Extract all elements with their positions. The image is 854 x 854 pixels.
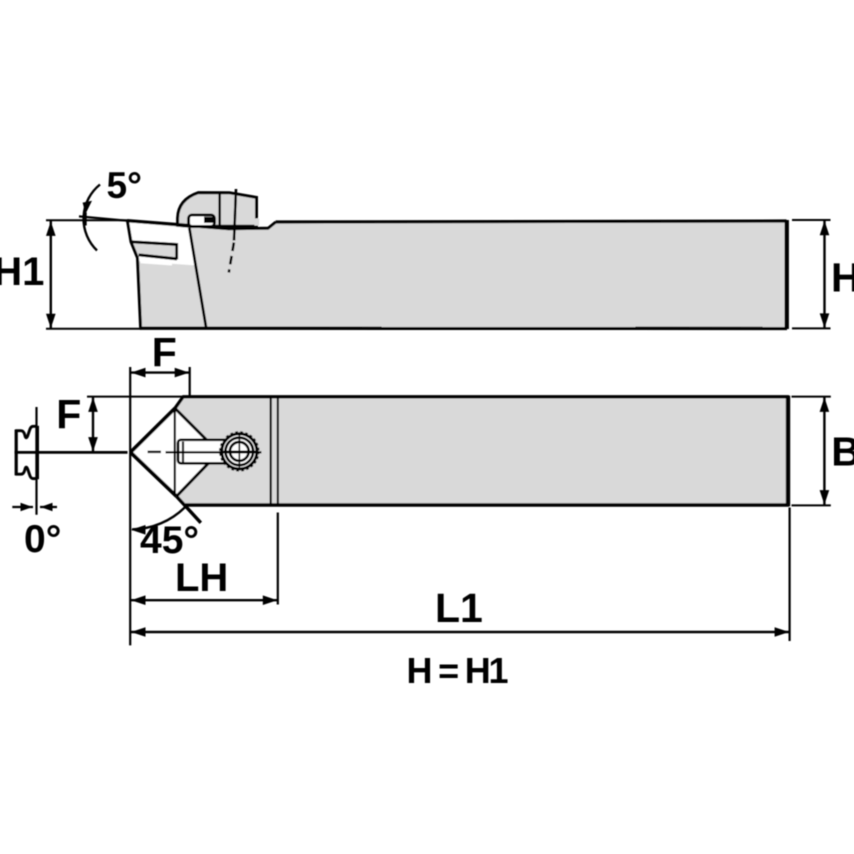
H1 arrow up <box>46 221 56 236</box>
shank bottom edge <box>140 327 787 331</box>
svg-text:LH: LH <box>175 556 228 600</box>
L1 right arrow <box>775 627 790 637</box>
5 deg sloped reference line <box>79 216 128 220</box>
F vertical: top ext line <box>87 396 182 398</box>
L1 right ext line <box>788 508 790 642</box>
insert bottom edge <box>131 242 178 245</box>
H dimension line <box>823 220 825 328</box>
svg-text:F: F <box>56 391 81 437</box>
B top ext line <box>792 396 831 398</box>
svg-text:H1: H1 <box>0 250 44 294</box>
screw head scalloped rim <box>220 432 259 471</box>
F vertical arrow down <box>88 437 98 452</box>
0 deg dim line left <box>12 506 33 508</box>
45 deg edge extension <box>177 496 201 523</box>
LH right ext line <box>277 513 279 605</box>
45 deg arc arrowhead <box>131 525 146 535</box>
workpiece left bar <box>15 430 18 476</box>
B arrow up <box>820 397 830 412</box>
side view shank body (gray) <box>128 221 787 328</box>
H bottom extension line <box>792 327 831 329</box>
diamond lower-right edge <box>177 452 220 496</box>
F vertical arrow up <box>88 397 98 412</box>
white gap line under shim <box>141 262 173 264</box>
clamp right edge lower gap (hidden line) <box>254 218 259 225</box>
0 deg arrow left-pointing <box>41 503 53 511</box>
shim bottom edge <box>139 255 177 259</box>
head front slant line <box>189 228 206 329</box>
H1 bottom extension line <box>46 328 141 330</box>
5 deg arc <box>84 185 100 251</box>
clamp nose black tab <box>204 217 214 223</box>
pocket right cap <box>175 243 178 259</box>
F horizontal: left ext line (long, shared with LH/L1) <box>129 367 131 645</box>
0 deg arrow right-pointing <box>21 503 33 511</box>
seam line right of clamp <box>230 227 269 231</box>
workpiece symbol <box>16 426 38 437</box>
screw cross vertical <box>238 434 240 470</box>
svg-text:F: F <box>152 330 177 376</box>
F horizontal left arrow <box>131 368 146 378</box>
L1 left arrow <box>131 627 146 637</box>
step up to shank top <box>268 222 276 228</box>
L1 dim line <box>131 631 790 633</box>
svg-text:0°: 0° <box>24 518 61 561</box>
H1 dimension line <box>50 221 52 329</box>
diamond lower-left cutting edge <box>131 452 177 496</box>
F horizontal right arrow <box>175 368 190 378</box>
F horizontal dim line <box>131 371 190 373</box>
H arrow down <box>820 313 830 328</box>
shaft inner cap line <box>182 442 184 463</box>
LH right arrow <box>263 595 278 605</box>
F vertical dim line <box>92 397 94 452</box>
screw head outer ring <box>222 434 257 469</box>
B bottom ext line <box>792 504 831 506</box>
insert top edge (5 deg sloped) <box>127 221 230 229</box>
F horizontal right ext line <box>189 367 191 397</box>
diamond vertical diagonal <box>174 410 176 496</box>
H top extension line <box>792 219 831 221</box>
shim (gray band under insert) <box>131 242 176 258</box>
clamp arm shaft (white) <box>178 440 228 464</box>
workpiece right bar <box>35 426 39 479</box>
head-shank seam line 2 <box>277 398 279 504</box>
svg-text:5°: 5° <box>107 165 142 206</box>
shank top edge <box>276 221 787 222</box>
clamp body side profile <box>178 193 257 227</box>
LH left arrow <box>131 595 146 605</box>
clamp nose white hole <box>189 215 215 227</box>
svg-text:H = H1: H = H1 <box>407 650 509 691</box>
head left edge <box>128 221 141 328</box>
screw axis dashed <box>229 243 234 273</box>
5 deg upper arrowhead <box>83 201 92 214</box>
plan top edge <box>183 395 790 398</box>
shank right edge <box>785 220 789 329</box>
screw drive circle <box>230 442 249 461</box>
H1 top extension line <box>46 219 128 221</box>
center line segment right <box>166 451 262 453</box>
5 deg arrow tick <box>83 213 86 226</box>
B arrow down <box>820 490 830 505</box>
plan view shank body (gray) <box>175 397 789 505</box>
screw visible edge line B <box>234 189 236 241</box>
0 deg extension line <box>35 407 37 515</box>
H arrow up <box>820 221 830 236</box>
B dim line <box>823 397 825 505</box>
screw cross horizontal <box>223 450 255 452</box>
screw head circle <box>226 438 254 466</box>
svg-text:B: B <box>831 429 854 475</box>
LH dim line <box>131 599 278 601</box>
head-shank seam line 1 <box>270 398 272 504</box>
center line segment left <box>15 451 128 454</box>
0 deg dim line right <box>40 506 57 508</box>
svg-text:L1: L1 <box>435 585 483 631</box>
insert pocket white region <box>128 222 196 265</box>
diamond upper-right edge <box>175 408 219 452</box>
diamond upper-left cutting edge <box>131 408 176 452</box>
H1 arrow down <box>46 314 56 329</box>
plan right edge <box>786 396 790 507</box>
45 deg arc <box>132 507 185 529</box>
insert diamond (white) <box>131 408 220 496</box>
plan bottom edge <box>186 503 790 506</box>
svg-text:H: H <box>831 255 854 301</box>
clamp inner line A <box>218 193 221 226</box>
center line dash <box>148 451 161 453</box>
head top chamfer <box>175 396 184 409</box>
